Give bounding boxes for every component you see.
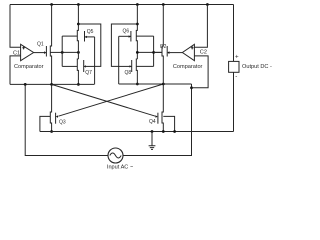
comparator C2 — [182, 44, 194, 60]
transistor Q3 — [40, 84, 58, 131]
ground — [149, 132, 156, 150]
wire C2 bottom input jog to AC right net — [192, 56, 209, 88]
svg-text:Q7: Q7 — [85, 70, 92, 76]
svg-text:-: - — [235, 73, 237, 80]
node mid column left — [77, 51, 80, 54]
node top rail junction C2 input — [206, 3, 209, 6]
node ground stub junction — [151, 130, 154, 133]
transistor Q2 — [154, 5, 170, 85]
wire Q2 body tap to mid node right — [137, 51, 162, 53]
node Q4 source bottom rail — [162, 130, 165, 133]
node Q5 drain gate pickup — [77, 23, 80, 26]
svg-text:Q3: Q3 — [59, 120, 66, 126]
svg-text:Q5: Q5 — [87, 29, 94, 35]
node top rail junction Q6 column — [136, 3, 139, 6]
wire Q1 body tap to mid node — [62, 51, 78, 53]
transistor Q5 — [62, 5, 94, 60]
wire AC right node horizontal line — [119, 83, 192, 85]
svg-text:Comparator: Comparator — [14, 64, 44, 70]
wire left edge to comparator C1 top input — [10, 5, 21, 48]
wire Q6 Q8 gate net inner vertical — [118, 36, 120, 84]
wire top rail V+ — [10, 4, 234, 6]
node AC left line Q1 Q3 column — [50, 83, 53, 86]
transistor Q6 — [119, 5, 154, 60]
node AC left line to down wire — [24, 83, 27, 86]
transistor Q4 — [156, 84, 175, 132]
wire output drop from top rail — [233, 5, 235, 62]
node Q7 source on AC left node line — [77, 83, 80, 86]
wire C2 top input from top rail — [194, 5, 207, 48]
AC source V1 — [108, 148, 123, 163]
svg-text:Comparator: Comparator — [173, 64, 203, 70]
svg-text:Output DC -: Output DC - — [242, 64, 272, 70]
node top rail junction Q1 drain — [50, 3, 53, 6]
svg-text:+: + — [235, 53, 239, 60]
wire comparator C1 output to Q1 gate — [34, 52, 45, 54]
node Q4 body loop bottom rail — [173, 130, 176, 133]
wire Q6 Q8 gate net outer loop — [111, 24, 137, 66]
node C2 bottom input junction — [190, 86, 193, 89]
svg-text:Q4: Q4 — [149, 119, 156, 125]
wire AC left node down to bottom rail — [25, 84, 108, 155]
node top rail junction Q5 column — [77, 3, 80, 6]
wire cross coupling diagonal B to Q3 gate — [58, 84, 163, 116]
node Q8 source on AC right node line — [136, 83, 139, 86]
svg-text:Q2: Q2 — [160, 44, 167, 50]
wire AC right node down to bottom rail — [123, 84, 192, 156]
node right mid column — [136, 51, 139, 54]
svg-text:Q6: Q6 — [123, 29, 130, 35]
comparator C1 — [21, 44, 34, 60]
transistor Q8 — [119, 59, 154, 84]
wire AC left node horizontal line — [10, 83, 94, 85]
node AC right line Q2 Q4 column — [162, 83, 165, 86]
wire C1 bottom input from AC left net — [10, 56, 21, 85]
wire left body rect vertical — [61, 36, 63, 66]
output load box — [229, 61, 239, 72]
transistor Q7 — [62, 59, 94, 84]
node right tap crossing body rect — [152, 51, 155, 54]
wire comparator C2 output to Q2 gate — [169, 52, 182, 54]
wire Q5 Q7 gate net outer loop — [78, 24, 100, 66]
wire output return rail — [40, 131, 234, 133]
node top rail junction Q2 drain — [162, 3, 165, 6]
node tap crossing left rect — [61, 51, 64, 54]
svg-text:Input AC ~: Input AC ~ — [107, 165, 134, 171]
svg-text:Q8: Q8 — [125, 70, 132, 76]
wire output load to return rail — [233, 72, 235, 131]
transistor Q1 — [44, 5, 62, 85]
wire cross coupling diagonal A to Q4 gate — [52, 84, 156, 116]
wire Q5 Q7 gate net inner vertical — [94, 37, 96, 85]
svg-text:C2: C2 — [200, 50, 207, 56]
svg-text:Q1: Q1 — [37, 42, 44, 48]
node Q6 drain gate pickup — [136, 23, 139, 26]
node Q3 source bottom rail — [50, 130, 53, 133]
wire right body rect vertical — [153, 36, 155, 66]
